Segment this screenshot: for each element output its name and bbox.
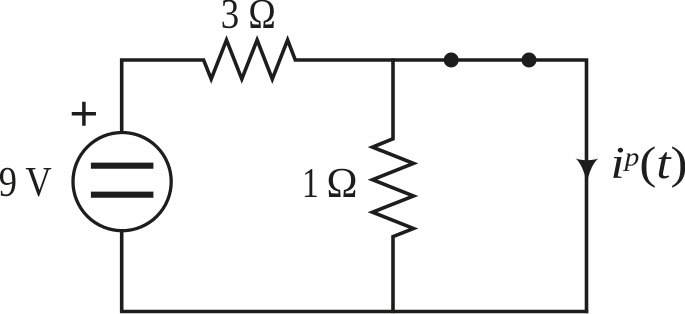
svg-text:1: 1 [302, 161, 319, 207]
svg-text:9 V: 9 V [0, 160, 52, 206]
svg-text:ip(t): ip(t) [611, 138, 685, 188]
svg-text:Ω: Ω [327, 161, 358, 207]
svg-text:3 Ω: 3 Ω [221, 0, 276, 38]
